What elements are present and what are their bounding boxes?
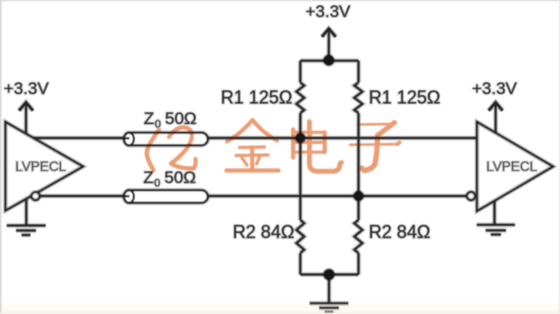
svg-text:LVPECL: LVPECL: [486, 159, 537, 174]
svg-text:R1 125Ω: R1 125Ω: [369, 88, 441, 108]
svg-text:LVPECL: LVPECL: [15, 159, 66, 174]
svg-text:R2 84Ω: R2 84Ω: [233, 222, 294, 242]
svg-text:R1 125Ω: R1 125Ω: [221, 88, 292, 108]
svg-text:+3.3V: +3.3V: [306, 2, 352, 21]
svg-text:+3.3V: +3.3V: [4, 79, 50, 98]
svg-text:R2 84Ω: R2 84Ω: [369, 222, 431, 242]
svg-text:Z050Ω: Z050Ω: [143, 168, 196, 190]
svg-text:+3.3V: +3.3V: [472, 79, 518, 98]
